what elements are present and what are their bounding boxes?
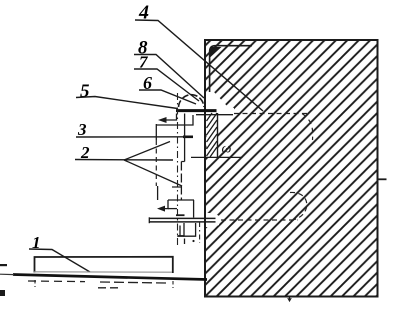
pin (long horizontal bar into lower slot) <box>149 217 216 219</box>
block outline <box>205 40 378 297</box>
label 6 <box>139 73 196 104</box>
upper arrow pointer <box>158 114 177 124</box>
lower assembly vertical <box>193 200 195 218</box>
dashes below <box>28 280 85 283</box>
footplate above pin <box>176 214 185 216</box>
thin left stub of table line <box>0 273 14 275</box>
actuator column left edge <box>155 124 157 140</box>
lower slot notch (white) <box>205 213 219 227</box>
dashed dome (valve cap) <box>179 95 205 107</box>
label 2 with fan leaders <box>75 142 182 187</box>
inner offset edge line at corner <box>210 46 252 92</box>
bottom tick below block <box>288 297 291 302</box>
long table line (thick) <box>13 275 207 280</box>
short vertical tails under base <box>34 280 36 287</box>
jog <box>181 161 184 163</box>
hidden slot dashed continuation <box>234 113 310 115</box>
rung bottom <box>168 199 194 201</box>
label 5 <box>76 81 178 109</box>
hidden cavity dashed bottom line <box>221 219 298 221</box>
label 1 <box>29 233 90 272</box>
actuator column right edge (lower, narrower) <box>180 162 182 201</box>
stepped bracket under blade <box>156 115 193 125</box>
label 7 <box>134 53 199 102</box>
upper slot notch (white) <box>205 92 234 130</box>
thin hatched strip on block face <box>207 113 218 157</box>
actuator column right edge (upper) <box>184 114 186 162</box>
lower arrow pointer <box>157 200 177 212</box>
rung lower <box>172 186 181 188</box>
center horizontal line with tick <box>191 156 243 158</box>
left margin marks <box>0 264 7 266</box>
svg-text:5: 5 <box>80 81 90 102</box>
base plate <box>0 257 207 288</box>
bottom stubs <box>184 239 186 245</box>
left foot under pin <box>179 226 181 236</box>
slot bottom line <box>196 114 233 116</box>
column centerline (dash-dot) <box>177 93 179 245</box>
light upper table line <box>34 271 172 273</box>
right edge tick <box>378 178 387 180</box>
small block under pin <box>184 223 196 236</box>
dark corner triangle <box>210 47 222 58</box>
label 8 <box>134 38 204 99</box>
svg-text:3: 3 <box>77 120 87 139</box>
dash-dot vertical right of small block <box>199 222 201 243</box>
hidden channel dashed contour (upper bend) <box>302 114 313 141</box>
svg-text:ω: ω <box>222 142 232 157</box>
label 4 <box>135 2 263 112</box>
hidden channel dashed contour (lower bend) <box>290 192 307 219</box>
hatched block body <box>205 40 378 297</box>
label 3 <box>76 120 193 139</box>
blade (thick line into slot) <box>176 109 217 112</box>
